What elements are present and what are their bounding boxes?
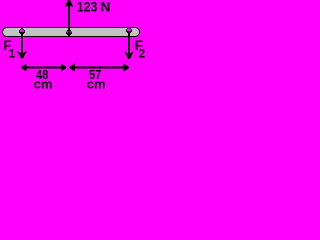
dimension arrow 48 cm (double-headed) [21,63,66,71]
background [0,0,146,90]
svg-text:cm: cm [34,76,53,90]
force marker diamond (123 N application point) [66,30,72,36]
beam (bar) [3,28,140,37]
svg-text:N: N [101,0,111,15]
svg-text:2: 2 [139,48,145,61]
wire: F1 arrow shaft [21,33,23,54]
F1 arrowhead (down) [17,51,27,58]
svg-text:1: 1 [9,47,16,60]
123 N arrowhead (up) [65,0,74,7]
dimension arrow 57 cm (double-headed) [70,63,129,71]
wire: F2 arrow shaft [128,33,130,54]
svg-text:123: 123 [77,0,98,15]
wire: 123 N arrow shaft [68,4,70,33]
force marker diamond F1 [19,28,25,34]
F2 arrowhead (down) [124,51,134,58]
svg-text:cm: cm [87,76,106,90]
force marker diamond F2 [126,27,132,33]
